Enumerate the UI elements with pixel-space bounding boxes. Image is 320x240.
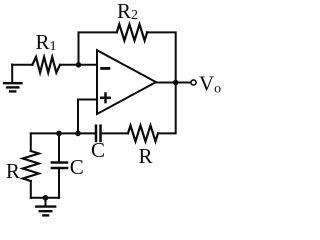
wire R2 to output vertical (147, 32, 176, 82)
wire ground to R1 (12, 64, 32, 66)
svg-text:Vo: Vo (199, 71, 221, 96)
svg-text:R: R (139, 144, 153, 168)
wire node to non-inverting input (78, 100, 97, 134)
wire bottom rail (31, 197, 59, 199)
ground GND1 (4, 65, 21, 92)
svg-text:C: C (91, 138, 105, 162)
svg-text:R1: R1 (36, 30, 57, 54)
svg-text:C: C (70, 155, 84, 179)
svg-text:R: R (6, 159, 20, 183)
capacitor C shunt vertical (52, 133, 67, 197)
node C plus-input drop junction (75, 131, 81, 137)
resistor R1 (32, 57, 60, 73)
op-amp U1 (97, 50, 156, 114)
capacitor C series (96, 126, 101, 141)
wire node A up to R2 (79, 32, 117, 64)
wire series R to capacitor C (101, 132, 129, 134)
resistor R series (128, 126, 158, 142)
resistor R shunt vertical (23, 133, 39, 197)
wire output down to series R (158, 83, 176, 134)
wire capacitor C to non-inverting branch (31, 132, 96, 134)
svg-text:R2: R2 (117, 0, 138, 23)
node A junction dot (76, 62, 82, 68)
resistor R2 (117, 24, 147, 40)
node D shunt C top junction (56, 131, 62, 137)
node E ground junction dot (43, 195, 49, 201)
wire op-amp output to terminal (156, 82, 191, 84)
node B output junction dot (173, 80, 179, 86)
terminal Vo open circle (191, 80, 196, 85)
wire R1 to inverting input (60, 64, 97, 66)
ground GND2 (36, 198, 55, 216)
